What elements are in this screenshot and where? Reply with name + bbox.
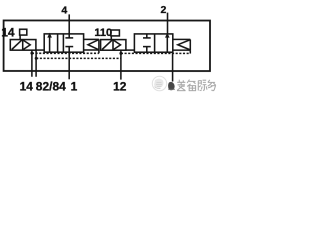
watermark logo [152, 76, 175, 90]
node dot1 [30, 52, 33, 55]
pilot channel V2 [126, 49, 135, 51]
wire port 4 stub [68, 14, 70, 34]
wire pilot leg V1 [98, 50, 100, 53]
wire port 82/84 drop [35, 50, 37, 77]
wire body drain V2 [172, 52, 174, 81]
svg-text:12: 12 [113, 80, 127, 94]
pilot channel V1 [36, 49, 44, 51]
svg-text:4: 4 [61, 4, 67, 16]
valve V1 blocked port bottom [65, 47, 73, 53]
pilot triangle V2 [113, 40, 121, 50]
wire terminal stem V1 [19, 35, 21, 40]
wire port 14 drop [31, 50, 33, 77]
svg-text:1: 1 [71, 79, 78, 93]
valve V2 blocked port top [143, 34, 151, 38]
svg-text:110: 110 [94, 27, 112, 39]
wire port 2 stub [167, 13, 169, 34]
solenoid terminal box V2 [111, 30, 120, 36]
solenoid coil V1 [10, 40, 36, 51]
node dot2 [35, 57, 38, 60]
valve V2 body [134, 34, 172, 52]
svg-text:2: 2 [160, 4, 166, 16]
pilot line dashed1 [32, 52, 99, 54]
air pilot return V1 [84, 39, 99, 50]
node dot3 [119, 52, 122, 55]
pilot triangle V1 [23, 40, 31, 50]
valve V1 blocked port top [65, 34, 73, 38]
wire pilot leg V2 [189, 50, 191, 53]
svg-text:14: 14 [1, 25, 15, 39]
valve V1 body [44, 34, 83, 52]
solenoid terminal box V1 [20, 29, 27, 35]
valve V2 flow arrow [165, 33, 170, 53]
solenoid coil V2 [101, 40, 126, 51]
enclosure frame [4, 20, 210, 71]
svg-text:14: 14 [20, 79, 34, 93]
valve V2 blocked port bottom [143, 47, 151, 53]
air pilot return V2 [173, 39, 191, 50]
wire terminal stem V2 [110, 36, 112, 40]
wire port 1 drop [68, 52, 70, 79]
watermark text 装备服务 [177, 80, 216, 91]
valve V1 second flow line [57, 34, 59, 52]
pilot line dashed2 [36, 57, 121, 59]
pilot line dashed3 [121, 52, 190, 54]
valve V1 flow arrow [47, 33, 52, 53]
wire port 12 drop [120, 50, 122, 79]
svg-text:82/84: 82/84 [36, 79, 66, 93]
